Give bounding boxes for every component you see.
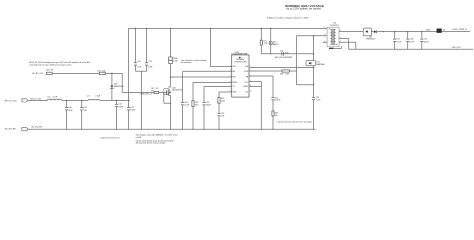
wire: 5V rail	[28, 99, 47, 101]
svg-text:R20: R20	[46, 69, 49, 71]
wire: SW node from drain to U20	[171, 76, 232, 78]
svg-text:100nF: 100nF	[130, 109, 136, 111]
svg-text:HV_BU_5V0: HV_BU_5V0	[32, 73, 43, 75]
capacitor C20 10uF (bus decoupling)	[135, 28, 137, 62]
capacitor C28 4.7uF (output)	[407, 32, 409, 39]
wire: U20 SW pin to snubber/D21 node	[249, 67, 314, 69]
svg-text:750315371: 750315371	[330, 25, 339, 27]
capacitor C32 1nF	[217, 113, 220, 115]
svg-text:GND2: GND2	[243, 86, 248, 88]
svg-text:100R: 100R	[173, 61, 178, 63]
svg-text:BU_5V2_EN: BU_5V2_EN	[5, 129, 16, 131]
svg-text:C41: C41	[84, 107, 87, 109]
svg-text:SW: SW	[245, 66, 248, 68]
resistor R28 124k (feedback)	[282, 70, 289, 72]
capacitor C27 4.7uF (output)	[394, 32, 396, 39]
svg-text:BSC0802LS: BSC0802LS	[172, 90, 183, 92]
wire: ground rail	[28, 128, 315, 130]
wire: transformer shield pin loop	[333, 48, 342, 50]
diode D22 PMEG6010 (box)	[363, 28, 371, 36]
transistor Q20 MOSFET	[163, 88, 170, 95]
svg-text:DCM: DCM	[244, 71, 249, 73]
svg-text:CONTROLLER: CONTROLLER	[234, 62, 247, 64]
resistor R29 10k	[272, 111, 274, 116]
svg-text:the oscillation: the oscillation	[181, 61, 192, 64]
svg-text:C40: C40	[69, 107, 72, 109]
capacitor C21 10uF (bus decoupling)	[146, 28, 148, 62]
svg-text:BAS21: BAS21	[273, 43, 278, 46]
wire: secondary bottom pin return	[339, 41, 356, 43]
wire: U20 FB pin with R28	[249, 70, 282, 72]
svg-text:C20: C20	[137, 61, 140, 63]
svg-text:4.7uH: 4.7uH	[52, 97, 57, 99]
svg-text:All same point but the version: All same point but the versions change	[136, 142, 165, 145]
svg-text:SW: SW	[233, 76, 236, 78]
svg-text:220pF: 220pF	[206, 104, 212, 106]
wire: secondary mid pin return	[339, 38, 349, 40]
svg-text:BU_5V2_EN: BU_5V2_EN	[32, 127, 43, 129]
capacitor C24 4.7nF	[181, 102, 184, 104]
wire: corner down to gate wire	[121, 73, 123, 92]
capacitor C31 0.22uF	[271, 97, 274, 99]
wire: VIN top bus	[129, 27, 328, 29]
wire: bus drop to U20 VIN pin	[210, 28, 212, 66]
svg-text:ref 3kV: ref 3kV	[136, 136, 142, 139]
capacitor C29 100nF (output)	[421, 32, 423, 39]
svg-text:C26: C26	[280, 50, 283, 52]
wire: SW vertical at transformer	[313, 36, 315, 61]
svg-text:HV5_LP_5V0: HV5_LP_5V0	[30, 98, 41, 100]
resistor R27 4.7R (snubber clamp)	[260, 40, 262, 45]
svg-text:MM3Z20VB: MM3Z20VB	[114, 86, 124, 88]
wire: left loop vertical (bus to decoupling cap C23)	[128, 28, 130, 107]
diode D21 BZT52 (clamp in box)	[306, 61, 315, 66]
wire: secondary return rail	[349, 48, 473, 50]
resistor R20 0R	[46, 72, 52, 74]
svg-text:C22: C22	[118, 104, 121, 106]
capacitor C22 100nF (5V rail)	[116, 100, 118, 104]
svg-text:100nF: 100nF	[118, 107, 124, 109]
resistor R25 100k	[218, 97, 220, 103]
diode D22b output rectifier	[371, 31, 373, 33]
svg-text:Up to 120V spikes, be careful: Up to 120V spikes, be careful	[286, 7, 322, 11]
svg-text:R28: R28	[280, 74, 283, 76]
wire: U20 ground pins	[249, 81, 261, 83]
label: transformer part under box	[329, 48, 334, 49]
svg-text:R22: R22	[151, 88, 154, 90]
svg-text:49.9: 49.9	[195, 104, 199, 106]
wire: source to ground	[170, 97, 172, 104]
capacitor C41 1uF (5V rail)	[81, 100, 83, 107]
wire: U20 pin to R24	[193, 81, 232, 83]
wire: U20 pin to R25/C32 divider	[219, 91, 232, 93]
svg-text:L20: L20	[47, 97, 50, 99]
wire: feedback to transformer pin 2	[296, 36, 298, 85]
svg-text:Snubber, to reduce voltage at: Snubber, to reduce voltage at drain to <…	[267, 17, 309, 20]
svg-text:If caps do need to avoid the w: If caps do need to avoid the warm rail v…	[277, 120, 312, 123]
zener diode D20 MM3Z20VB	[111, 73, 113, 85]
wire: secondary top pin to D22	[339, 31, 363, 33]
svg-text:Vout voltage = (1+(1+1)) x (Rf: Vout voltage = (1+(1+1)) x (Rfb/Rref) - …	[136, 134, 178, 137]
wire: bus drop to snubber resistor R27	[260, 28, 262, 40]
wire: U20 pin row - EN to C24	[183, 70, 232, 72]
capacitor C40 22uF (5V rail)	[66, 100, 68, 107]
diode D25 (snubber clamp)	[269, 41, 272, 44]
wire: C20/C21 common bottom to ground	[136, 70, 147, 72]
svg-text:10k: 10k	[275, 115, 278, 117]
svg-text:C29: C29	[424, 39, 427, 41]
svg-text:100nF: 100nF	[424, 41, 430, 43]
svg-text:BAS21AH: BAS21AH	[317, 63, 326, 66]
svg-text:GATE_HV5_LP: GATE_HV5_LP	[140, 93, 153, 96]
svg-text:HV5_LP_5V0: HV5_LP_5V0	[5, 100, 16, 102]
capacitor C30 2.2nF	[312, 96, 315, 98]
svg-text:12: 12	[250, 91, 252, 93]
svg-text:GND: GND	[233, 91, 238, 93]
wire: primary pin2 horizontal	[297, 35, 328, 37]
wire: bulk connection L	[163, 93, 165, 104]
svg-text:PMEG6010: PMEG6010	[366, 39, 375, 41]
svg-text:124k: 124k	[285, 74, 289, 76]
wire: drain vertical from bus through FB20	[170, 28, 172, 57]
capacitor C23 100nF (bus decoupling on left vertical)	[127, 107, 130, 109]
wire: snubber rail	[261, 53, 313, 55]
svg-text:2.2uH: 2.2uH	[95, 96, 100, 98]
ferrite bead FB20 100R	[169, 57, 173, 60]
resistor R24 49.9R (sense)	[192, 101, 194, 107]
wire: bus drop to snubber diode D25	[270, 28, 272, 41]
svg-text:L21: L21	[87, 96, 90, 98]
svg-text:HV5V0_PRES_5V: HV5V0_PRES_5V	[453, 29, 469, 31]
svg-text:Load test shown here first: Load test shown here first	[100, 137, 120, 140]
svg-text:FB21: FB21	[426, 30, 430, 32]
svg-text:100k: 100k	[221, 100, 225, 102]
svg-text:0.22uF: 0.22uF	[275, 100, 281, 102]
svg-text:C27: C27	[397, 39, 400, 41]
svg-text:C21: C21	[148, 61, 151, 63]
svg-text:C28: C28	[410, 39, 413, 41]
capacitor C25 220pF	[202, 102, 205, 104]
wire: primary pin3 stub	[323, 41, 327, 43]
wire: U20 pin to C25	[204, 86, 232, 88]
wire: U20 pin to C31	[249, 75, 273, 77]
svg-text:to keep BU safe, this gets +5V: to keep BU safe, this gets +5V09 at lowe…	[29, 63, 71, 66]
svg-text:HV5_RTN: HV5_RTN	[452, 47, 461, 49]
